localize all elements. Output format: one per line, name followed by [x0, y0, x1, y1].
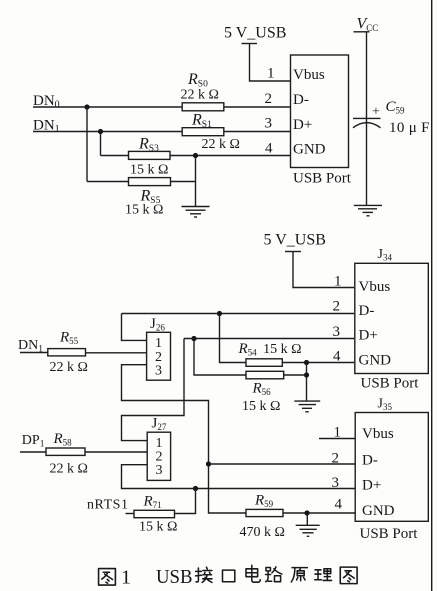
J27 pin numbers: [156, 436, 163, 478]
svg-text:USB Port: USB Port: [361, 376, 420, 392]
svg-text:Vbus: Vbus: [359, 279, 391, 295]
svg-text:4: 4: [265, 141, 273, 157]
caption char jie: [196, 567, 212, 582]
wire D+ detour to J27 pin1: [122, 339, 185, 441]
svg-text:C59: C59: [386, 99, 406, 116]
wire ground drop mid: [306, 363, 308, 402]
svg-text:15 k Ω: 15 k Ω: [139, 520, 177, 535]
wire D- down to J26 pin1: [122, 314, 147, 341]
J34 label D+: [359, 328, 378, 344]
USB Port 1 caption: [293, 170, 352, 186]
J34 pin 3 number: [333, 324, 341, 340]
net 5V_USB middle: [264, 232, 326, 249]
svg-text:D-: D-: [362, 452, 378, 468]
svg-text:Vbus: Vbus: [362, 426, 394, 442]
junction on DN0: [84, 104, 89, 109]
svg-text:GND: GND: [293, 142, 326, 158]
ground middle: [294, 401, 320, 412]
pin 3 number: [265, 116, 273, 132]
svg-text:USB Port: USB Port: [360, 526, 419, 542]
J35 caption USB Port: [360, 526, 419, 542]
RS1 label: [191, 112, 212, 131]
svg-text:J35: J35: [378, 397, 393, 413]
resistor R56: [246, 371, 284, 379]
wire 5V down: [250, 44, 291, 82]
svg-text:15 k Ω: 15 k Ω: [130, 163, 168, 178]
svg-text:R58: R58: [53, 431, 73, 448]
supply bar 5V_USB top: [242, 43, 258, 45]
wire RS1 to pin3: [224, 131, 291, 133]
resistor R54: [246, 359, 282, 367]
svg-text:10 μ F: 10 μ F: [389, 120, 430, 136]
J35 label D+: [362, 477, 381, 493]
caption char dian: [246, 565, 260, 582]
junction D+ to R56: [191, 336, 196, 341]
svg-text:Vbus: Vbus: [293, 67, 325, 83]
RS3 value 15 k ohm: [130, 163, 168, 178]
J35 pin 3 number: [332, 475, 340, 491]
caption char yuan: [291, 568, 307, 582]
J34 pin 2 number: [333, 299, 341, 315]
svg-text:D+: D+: [362, 477, 381, 493]
svg-text:4: 4: [335, 497, 343, 513]
caption char li: [315, 569, 332, 581]
RS0 label: [187, 71, 208, 90]
wire ground drop: [195, 156, 197, 207]
wire DN1: [33, 131, 183, 133]
RS0 value 22 k ohm: [181, 88, 219, 103]
svg-text:22 k Ω: 22 k Ω: [181, 88, 219, 103]
svg-text:15 k Ω: 15 k Ω: [242, 399, 280, 414]
junction RS3 to ground: [193, 153, 198, 158]
svg-text:3: 3: [332, 475, 340, 491]
wire DN0: [33, 106, 183, 108]
pin 2 number: [265, 91, 273, 107]
svg-text:USB Port: USB Port: [293, 170, 352, 186]
junction GND to ground: [304, 360, 309, 365]
svg-text:J27: J27: [152, 416, 167, 433]
pin label D-: [293, 92, 309, 108]
J35 label D-: [362, 452, 378, 468]
svg-text:R55: R55: [59, 330, 79, 347]
wire nRTS1 stub: [126, 513, 135, 515]
J34 pin 4 number: [333, 349, 341, 365]
svg-text:DN0: DN0: [33, 93, 60, 111]
svg-text:nRTS1: nRTS1: [87, 498, 128, 513]
J35 pin 1 number: [334, 425, 342, 441]
svg-text:D+: D+: [293, 117, 312, 133]
svg-text:RS1: RS1: [191, 112, 212, 131]
svg-text:5 V_USB: 5 V_USB: [224, 25, 286, 42]
svg-text:R59: R59: [254, 493, 274, 510]
svg-text:J34: J34: [378, 247, 393, 263]
RS5 label: [140, 188, 161, 207]
svg-text:D-: D-: [359, 303, 375, 319]
wire 5V to J34 pin1: [293, 252, 354, 288]
svg-text:1: 1: [334, 274, 342, 290]
svg-text:J26: J26: [150, 316, 165, 333]
RS5 value 15 k ohm: [125, 203, 163, 218]
connector J35: [355, 413, 428, 522]
caption figure 1: [99, 565, 358, 588]
supply bar 5V_USB middle: [285, 251, 301, 253]
connector J27: [147, 432, 170, 480]
connector USB Port 1: [291, 55, 349, 168]
ground under C59: [354, 205, 382, 215]
wire RS0 to pin2: [224, 106, 291, 108]
node nRTS1: [87, 498, 128, 513]
resistor R71: [134, 510, 175, 517]
svg-text:15 k Ω: 15 k Ω: [125, 203, 163, 218]
pin label GND: [293, 142, 326, 158]
wire ground drop bottom: [306, 513, 308, 525]
J34 pin 1 number: [334, 274, 342, 290]
svg-text:VCC: VCC: [357, 16, 379, 34]
wire RS5 to ground line: [171, 181, 196, 183]
J34 caption USB Port: [361, 376, 420, 392]
scan artifact line: [431, 0, 433, 591]
J34 label GND: [359, 353, 392, 369]
C59 label: [386, 99, 406, 116]
R56 value 15 k ohm: [242, 399, 280, 414]
R56 label: [252, 381, 272, 398]
svg-text:DN1: DN1: [33, 118, 60, 136]
wire J35 pin2 D-: [209, 463, 356, 465]
svg-text:+: +: [372, 105, 380, 120]
J35 pin 2 number: [332, 451, 340, 467]
svg-text:22 k Ω: 22 k Ω: [50, 360, 88, 375]
junction D+ to R71: [193, 486, 198, 491]
J26 label: [150, 316, 165, 333]
J35 pin 4 number: [335, 497, 343, 513]
caption char tu: [99, 569, 116, 586]
wire R71 up: [175, 489, 196, 514]
wire R56 right: [284, 374, 307, 376]
node DP1: [22, 433, 45, 450]
ground: [182, 207, 210, 218]
supply bar Vcc: [354, 31, 370, 33]
J34 label: [378, 247, 393, 263]
svg-text:3: 3: [333, 324, 341, 340]
wire DN1 junction down to RS3: [100, 132, 102, 156]
R55 value 22 k ohm: [50, 360, 88, 375]
svg-text:2: 2: [265, 91, 273, 107]
net 5V_USB top: [224, 25, 286, 42]
net Vcc: [357, 16, 379, 34]
J26 pin numbers: [155, 336, 162, 379]
svg-text:1: 1: [267, 66, 275, 82]
svg-text:GND: GND: [359, 353, 392, 369]
node DN1 bottom: [18, 338, 43, 355]
R58 value 22 k ohm: [50, 462, 88, 477]
svg-text:2: 2: [333, 299, 341, 315]
wire R59 to J35 GND: [283, 512, 355, 514]
R59 label: [254, 493, 274, 510]
wire DN1 to R55: [20, 352, 48, 354]
ground bottom: [296, 525, 320, 536]
C59 value 10 uF: [389, 120, 430, 136]
svg-text:22 k Ω: 22 k Ω: [202, 137, 240, 152]
resistor RS1: [182, 128, 224, 136]
pin label D+: [293, 117, 312, 133]
pin 1 number: [267, 66, 275, 82]
resistor R58: [46, 448, 85, 455]
J35 label: [378, 397, 393, 413]
wire J26 pin2 to R55: [86, 352, 147, 354]
caption char tu 2: [340, 567, 357, 584]
caption char kou: [222, 570, 234, 582]
J34 label D-: [359, 303, 375, 319]
svg-text:R54 15 k Ω: R54 15 k Ω: [238, 341, 302, 358]
node DN0: [33, 93, 60, 111]
wire R56 left to D+: [194, 339, 246, 376]
caption char lu: [266, 567, 282, 582]
wire to RS5: [87, 181, 129, 183]
wire J27 pin2 to R58: [85, 451, 147, 453]
connector J34: [355, 263, 429, 373]
svg-text:DN1: DN1: [18, 338, 43, 355]
connector J26: [147, 332, 171, 380]
svg-text:R71: R71: [143, 494, 162, 511]
node DN1: [33, 118, 60, 136]
svg-text:3: 3: [156, 463, 163, 478]
R55 label: [59, 330, 79, 347]
pin label Vbus: [293, 67, 325, 83]
RS1 value 22 k ohm: [202, 137, 240, 152]
svg-text:1: 1: [155, 336, 162, 351]
svg-text:1: 1: [121, 567, 131, 589]
resistor R59: [246, 509, 283, 516]
wire J26 pin3 detour: [122, 365, 247, 513]
svg-text:R56: R56: [252, 381, 272, 398]
wire to RS3: [101, 155, 129, 157]
svg-text:GND: GND: [362, 503, 395, 519]
wire DP1 to R58: [20, 451, 46, 453]
svg-text:RS3: RS3: [138, 136, 159, 155]
R54 label and value: [238, 341, 302, 358]
wire RS3 to pin4 GND: [170, 155, 291, 157]
svg-text:D+: D+: [359, 328, 378, 344]
junction J35 D-: [206, 461, 211, 466]
wire J34 D-: [122, 313, 355, 315]
wire R54 drop: [220, 314, 247, 363]
svg-text:3: 3: [155, 364, 162, 379]
resistor RS3: [129, 151, 171, 159]
capacitor C59: [353, 105, 381, 128]
resistor RS5: [129, 178, 171, 186]
R71 value 15 k ohm: [139, 520, 177, 535]
resistor R55: [48, 349, 86, 356]
J27 label: [152, 416, 167, 433]
junction R56 right: [304, 372, 309, 377]
wire J34 GND pin4: [282, 362, 354, 364]
R71 label: [143, 494, 162, 511]
wire J27 pin3 to J35 D+: [122, 465, 356, 489]
svg-text:22 k Ω: 22 k Ω: [50, 462, 88, 477]
svg-text:3: 3: [265, 116, 273, 132]
svg-text:D-: D-: [293, 92, 309, 108]
J35 label Vbus: [362, 426, 394, 442]
svg-text:5 V_USB: 5 V_USB: [264, 232, 326, 249]
junction D- to R54: [217, 311, 222, 316]
svg-text:2: 2: [332, 451, 340, 467]
R59 value 470 k ohm: [240, 525, 285, 540]
wire DN0 junction down to RS5: [86, 107, 88, 182]
svg-text:USB: USB: [156, 566, 193, 588]
svg-text:470 k Ω: 470 k Ω: [240, 525, 285, 540]
J34 label Vbus: [359, 279, 391, 295]
J35 pin1 stub: [319, 438, 355, 440]
junction R59 ground: [304, 510, 309, 515]
J35 label GND: [362, 503, 395, 519]
wire J34 D+: [184, 338, 354, 340]
R58 label: [53, 431, 73, 448]
svg-text:DP1: DP1: [22, 433, 45, 450]
pin 4 number: [265, 141, 273, 157]
wire Vcc down to ground: [366, 32, 368, 205]
junction on DN1: [98, 129, 103, 134]
resistor RS0: [182, 103, 224, 111]
RS3 label: [138, 136, 159, 155]
